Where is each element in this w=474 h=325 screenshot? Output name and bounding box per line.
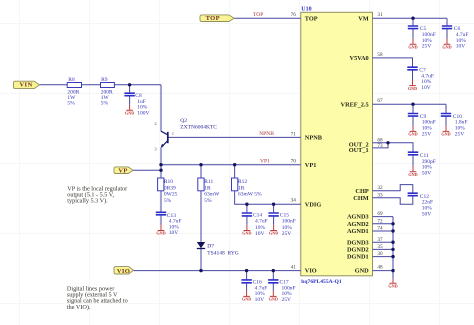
svg-text:69: 69 [377,211,383,217]
svg-text:74: 74 [377,226,383,232]
resistor R9 [101,77,115,107]
resistor R8 [67,77,81,107]
capacitor C14 [242,213,268,237]
svg-text:10V: 10V [456,44,466,50]
capacitor C17 [268,280,295,303]
svg-text:25V: 25V [455,131,465,137]
svg-text:GND: GND [408,86,417,91]
svg-text:34: 34 [291,198,297,204]
capacitor C16 [241,280,267,303]
svg-text:0R39: 0R39 [164,185,176,191]
ground (C16) [242,291,251,302]
capacitor C6 [442,26,469,50]
svg-text:GND: GND [355,268,369,275]
node C8/VIN [128,83,131,86]
svg-text:Q2: Q2 [180,118,187,124]
svg-text:GND: GND [269,231,278,236]
wire R11 column [200,165,202,242]
wire VIO rail [134,270,301,272]
wire gnd bus [392,217,394,279]
svg-text:GND: GND [408,172,417,177]
pin numbers left [291,12,297,270]
wire AGND2 [373,223,394,225]
svg-text:10V: 10V [255,231,265,237]
svg-text:10V: 10V [169,230,179,236]
svg-text:4.7uF: 4.7uF [255,219,268,225]
svg-text:AGND3: AGND3 [347,214,369,221]
svg-text:100nF: 100nF [282,219,296,225]
svg-text:50V: 50V [422,170,432,176]
svg-text:C15: C15 [280,213,289,219]
resistor R10 [158,178,178,204]
svg-text:NPNB: NPNB [305,135,323,142]
svg-text:48: 48 [377,265,383,271]
wire C13 to gnd [160,215,162,224]
svg-text:VREF_2.5: VREF_2.5 [341,101,369,108]
wire C14 [246,204,248,225]
svg-text:VDIG: VDIG [305,201,322,208]
svg-text:AGND2: AGND2 [347,221,369,228]
svg-text:72: 72 [377,219,383,225]
node R12/VP1 [233,163,236,166]
wire Q2 collector vertical [160,85,162,132]
node C5/VM [411,17,414,20]
svg-text:10%: 10% [282,225,293,231]
svg-text:TOP: TOP [305,16,318,23]
svg-text:DGND1: DGND1 [347,254,369,261]
svg-text:50V: 50V [422,211,432,217]
svg-text:bq76PL455A-Q1: bq76PL455A-Q1 [301,279,342,285]
capacitor C10 [441,114,468,138]
svg-text:R12: R12 [238,179,247,185]
svg-text:67: 67 [377,98,383,104]
pin names left [305,16,323,275]
resistor R12 [232,178,262,198]
svg-text:GND: GND [156,231,165,236]
wire C8 [129,85,131,105]
node VIO (port flag) [114,267,134,275]
svg-text:5%: 5% [204,198,212,204]
wire C12 bottom / CHM [373,196,413,204]
note VP text [67,185,127,204]
svg-text:35: 35 [377,244,383,250]
svg-text:76: 76 [291,12,297,18]
svg-text:25V: 25V [282,231,292,237]
node bus GND48 [391,269,394,272]
svg-text:70: 70 [291,159,297,165]
node R11/VP1 [199,163,202,166]
wire AGND1 [373,230,394,232]
capacitor C7 [407,67,434,91]
svg-text:GND: GND [408,45,417,50]
svg-text:63mW: 63mW [204,192,220,198]
capacitor C12 [408,193,434,217]
svg-text:VP1: VP1 [305,162,317,169]
ground (C13) [156,225,165,236]
node bus DGND2 [391,248,394,251]
svg-text:C14: C14 [253,213,262,219]
svg-text:GND: GND [441,132,450,137]
wire C15 [273,204,275,225]
ground (C10) [441,126,450,137]
ground (C9) [408,126,417,137]
svg-text:2: 2 [154,121,157,126]
svg-text:10V: 10V [421,85,431,91]
wire DGND1 [373,256,394,258]
svg-text:25V: 25V [422,44,432,50]
wire VP1 rail [161,164,301,166]
svg-text:NPNB: NPNB [259,131,274,137]
wire D7 to VIO rail [200,249,202,271]
node bus AGND2 [391,222,394,225]
svg-text:VIN: VIN [19,82,32,89]
wire NPNB [168,136,301,138]
transistor Q2 [161,131,168,147]
capacitor C11 [408,152,436,176]
svg-text:100V: 100V [137,110,149,116]
svg-text:R10: R10 [164,179,173,185]
ground (C11) [408,166,417,178]
wire V5VA0 / C7 [373,58,413,80]
wire GND pin 48 [373,270,394,272]
svg-text:GND: GND [242,297,251,302]
wire VM / C5 / C6 [373,18,448,38]
svg-text:30: 30 [377,251,383,257]
svg-text:TOP: TOP [253,12,263,18]
svg-text:typically 5.3 V).: typically 5.3 V). [67,198,108,205]
note VIO text [67,285,128,311]
svg-text:0W25: 0W25 [164,192,178,198]
svg-text:58: 58 [377,52,383,58]
svg-text:VIO: VIO [117,268,130,275]
node C16/VIO [245,269,248,272]
node VP1/emitter [159,163,162,166]
svg-text:25V: 25V [282,297,292,303]
svg-text:GND: GND [388,284,397,289]
ground (C7) [408,80,417,91]
node C14/VDIG [245,203,248,206]
svg-text:the VIO).: the VIO). [67,304,91,311]
wire VP flag stub [133,169,161,171]
ground (bus) [388,279,397,289]
svg-text:10V: 10V [255,297,265,303]
svg-text:DGND3: DGND3 [347,239,369,246]
svg-text:V5VA0: V5VA0 [350,55,369,62]
svg-text:TOP: TOP [206,15,220,22]
svg-text:CHP: CHP [355,188,368,195]
capacitor C5 [408,26,436,50]
node C9/VREF [411,103,414,106]
node TOP (port flag) [200,15,234,22]
svg-text:33: 33 [377,193,383,199]
node bus DGND3 [391,241,394,244]
wire CHP / C12 top [373,185,413,193]
pin names right [341,16,370,275]
svg-text:5%: 5% [101,101,109,107]
wire VIN rail [40,84,161,86]
svg-text:GND: GND [442,45,451,50]
svg-text:ZXTN6004KTC: ZXTN6004KTC [180,124,217,130]
ground (C8) [125,105,134,116]
node VP flag [159,169,162,172]
resistor R11 [198,178,220,204]
svg-text:1R: 1R [238,185,245,191]
wire TOP [234,17,301,19]
svg-text:1: 1 [172,131,175,136]
svg-text:R9: R9 [101,77,108,83]
svg-text:CHM: CHM [353,195,368,202]
svg-text:TS4148 RYG: TS4148 RYG [207,250,239,256]
node bus DGND1 [391,255,394,258]
svg-text:63mW 5%: 63mW 5% [238,192,262,198]
svg-text:VM: VM [358,16,369,23]
capacitor C13 [156,212,182,236]
wire DGND3 [373,241,394,243]
svg-text:GND: GND [242,231,251,236]
svg-text:AGND1: AGND1 [347,228,369,235]
wire VREF_2.5 / C9 / C10 [373,104,447,125]
wire OUT_1 join [373,143,389,148]
ground (C6) [442,39,451,50]
svg-text:5%: 5% [67,101,75,107]
svg-text:OUT_1: OUT_1 [349,147,369,154]
ground (C15) [269,225,278,236]
node VIN (port flag) [13,81,39,89]
node OUT join [386,141,389,144]
pin numbers right [377,12,383,270]
ground (C17) [269,291,278,302]
op-amp U10 (IC body bq76PL455A-Q1) [301,7,373,286]
wire DGND2 [373,248,394,250]
svg-text:D7: D7 [207,243,214,249]
svg-text:32: 32 [377,185,383,191]
svg-text:DGND2: DGND2 [347,247,369,254]
wire R12 column + VDIG [235,165,301,205]
node C15/VDIG [272,203,275,206]
svg-text:71: 71 [291,131,297,137]
ground (C14) [242,225,251,236]
svg-text:R11: R11 [204,179,213,185]
wire AGND3 [373,216,394,218]
node C17/VIO [272,269,275,272]
svg-text:GND: GND [269,297,278,302]
capacitor C15 [268,213,295,237]
svg-text:41: 41 [291,265,297,271]
node VP (port flag) [114,167,133,175]
ground (C5) [408,39,417,50]
svg-text:73: 73 [377,143,383,149]
svg-text:VP: VP [118,168,127,175]
svg-text:10%: 10% [255,225,266,231]
svg-text:5%: 5% [164,198,172,204]
svg-text:GND: GND [408,132,417,137]
diode D7 [197,242,239,256]
svg-text:GND: GND [125,111,134,116]
svg-text:31: 31 [377,12,383,18]
svg-text:1R: 1R [204,185,211,191]
svg-text:VIO: VIO [305,268,317,275]
svg-text:25V: 25V [422,131,432,137]
svg-text:U10: U10 [301,7,311,13]
capacitor C9 [408,114,436,138]
svg-text:R8: R8 [68,77,75,83]
capacitor C8 [124,93,149,116]
wire C17 [272,271,274,291]
svg-text:VP1: VP1 [260,159,270,165]
svg-text:37: 37 [377,237,383,243]
node D7/VIO [199,269,202,272]
node bus AGND1 [391,229,394,232]
wire OUT_2 / C11 [373,143,414,166]
wire Q2 emitter to R10/C13 [160,148,162,213]
wire C16 [246,271,248,291]
svg-text:3: 3 [154,147,157,152]
